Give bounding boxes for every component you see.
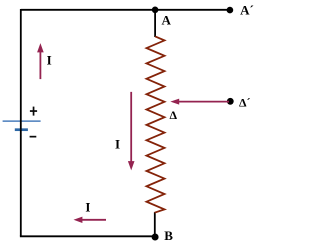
wire left upper (corner to battery) bbox=[20, 9, 22, 130]
battery - label bbox=[30, 136, 37, 138]
battery cell: positive long plate bbox=[3, 120, 41, 122]
resistor Δ (rheostat zigzag) bbox=[147, 36, 165, 212]
wire bottom (corner to node B) bbox=[20, 235, 155, 237]
current arrow bottom (leftward) bbox=[81, 219, 106, 221]
current arrow left (upward) bbox=[39, 50, 41, 79]
svg-text:Δ´: Δ´ bbox=[239, 96, 251, 110]
svg-text:I: I bbox=[47, 53, 52, 68]
svg-text:B: B bbox=[164, 228, 173, 243]
svg-text:A´: A´ bbox=[240, 2, 254, 17]
svg-text:Δ: Δ bbox=[170, 108, 178, 122]
battery cell: negative short plate bbox=[15, 128, 28, 131]
wiper arrow (Δ' to resistor) bbox=[178, 101, 229, 103]
wire right upper (node A to resistor top) bbox=[154, 10, 156, 37]
current arrow middle (downward) bbox=[130, 92, 132, 162]
wire right lower (resistor bottom to node B) bbox=[154, 212, 156, 236]
battery + label bbox=[30, 107, 37, 116]
terminal Δ' dot (wiper terminal) bbox=[227, 98, 234, 105]
node B (junction dot) bbox=[152, 234, 159, 241]
wire top (corner to A' terminal) bbox=[21, 9, 230, 11]
svg-text:I: I bbox=[115, 137, 120, 152]
wire left lower (battery to bottom corner) bbox=[20, 130, 22, 237]
node A (junction dot) bbox=[152, 7, 159, 14]
svg-text:I: I bbox=[85, 200, 90, 215]
terminal A' dot bbox=[227, 7, 234, 14]
svg-text:A: A bbox=[162, 12, 172, 27]
